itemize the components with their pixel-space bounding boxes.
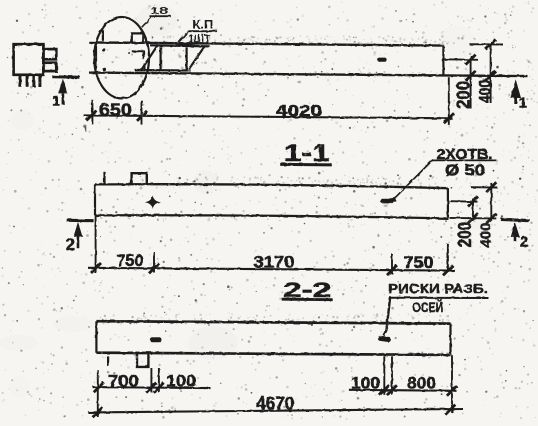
dim row 4670: [88, 409, 463, 412]
detail ellipse callout: [94, 17, 149, 98]
svg-text:750: 750: [404, 253, 434, 272]
label 18: [142, 5, 171, 27]
dim row 750/3170/750: [88, 268, 455, 271]
svg-text:К.П: К.П: [192, 20, 213, 32]
beam top view outline: [89, 42, 528, 76]
svg-text:400: 400: [477, 80, 495, 103]
label riski razb osey: [388, 281, 489, 315]
section marker 1 (right): [510, 79, 527, 111]
label K.P: [176, 20, 217, 46]
svg-text:ОСЕЙ: ОСЕЙ: [412, 298, 443, 315]
marks inside detail ellipse: [103, 30, 145, 70]
hole mark with leader 2xOTV: [381, 199, 394, 204]
right-side height dims 200/400 (top view): [444, 44, 503, 108]
svg-text:4020: 4020: [276, 103, 322, 120]
svg-text:2: 2: [520, 233, 528, 250]
beam view 1-1 outline: [95, 184, 448, 218]
diamond mark (lifting point): [145, 195, 161, 209]
section marker 2 (left, view 1-1): [66, 220, 94, 254]
svg-text:2: 2: [66, 236, 75, 254]
beam view 2-2 outline: [96, 321, 450, 355]
stubs above beam 1-1: [103, 172, 105, 185]
embedded plate K.P: [141, 45, 210, 71]
right-side height dims 200/400 (view 1-1): [450, 183, 498, 219]
dim row 650 / 4020: [84, 115, 453, 118]
svg-text:3170: 3170: [254, 253, 295, 272]
svg-text:100: 100: [351, 374, 380, 393]
mid-beam embed mark (top view): [377, 58, 386, 62]
axis mark + leader (riski razb. osey): [378, 335, 392, 342]
title 2-2: [281, 279, 333, 302]
stray mark: [85, 125, 87, 131]
vertical dim text 200 (view 1-1): [455, 222, 475, 248]
svg-text:800: 800: [407, 374, 436, 393]
vertical dim text 200 (top view): [453, 81, 473, 109]
vertical dim text 400 (top view): [477, 80, 495, 103]
svg-text:750: 750: [116, 251, 143, 270]
svg-text:РИСКИ РАЗБ.: РИСКИ РАЗБ.: [388, 281, 488, 296]
stubs below beam 2-2: [107, 356, 109, 366]
section marker 1 (left): [52, 77, 80, 109]
section marker 2 (right, view 1-1): [501, 219, 530, 250]
embed mark in beam 2-2: [150, 337, 162, 342]
vertical dim text 400 (view 1-1): [478, 223, 495, 248]
left end cross-section figure: [14, 44, 57, 87]
label 2xOTV / D50: [432, 146, 496, 179]
label 1ShT: [178, 34, 216, 46]
svg-text:1: 1: [519, 95, 527, 112]
svg-text:100: 100: [166, 372, 196, 391]
svg-text:Ø 50: Ø 50: [445, 163, 485, 180]
svg-text:1: 1: [52, 94, 60, 109]
title 1-1: [280, 140, 332, 167]
svg-text:4670: 4670: [256, 394, 294, 414]
dim row 700/100 ... 100/800: [93, 387, 211, 388]
